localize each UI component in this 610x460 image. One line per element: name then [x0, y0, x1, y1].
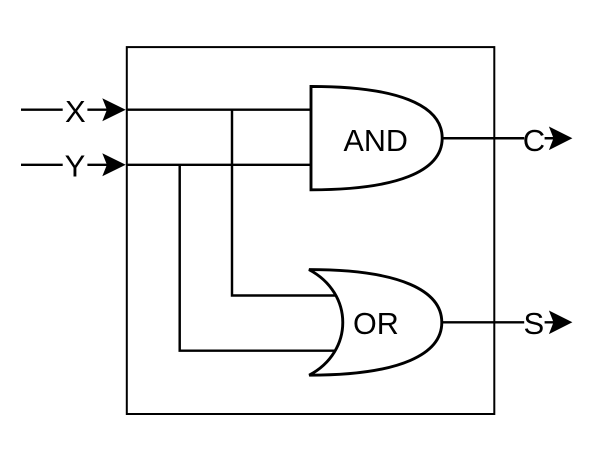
wire: X input lead (outside box) [21, 108, 122, 110]
wire: branch X to OR input 1 [232, 110, 338, 296]
wire: OR output to S [442, 321, 568, 323]
wire: AND output to C [442, 137, 568, 139]
arrowhead on S output [549, 311, 573, 335]
svg-text:C: C [523, 123, 545, 158]
arrowhead on C output [549, 127, 573, 151]
AND gate U1 [311, 86, 442, 189]
arrowhead on Y input at box edge [102, 153, 125, 176]
svg-text:X: X [65, 94, 86, 129]
wire: X to AND input 1 (inside box) [127, 108, 312, 110]
wire: branch Y to OR input 2 [180, 165, 338, 351]
enclosing box [127, 47, 495, 414]
arrowhead on X input at box edge [102, 98, 125, 121]
svg-text:OR: OR [353, 307, 399, 341]
wire: Y input lead (outside box) [21, 164, 122, 166]
label background Y [63, 149, 88, 180]
svg-text:S: S [523, 306, 544, 341]
svg-text:Y: Y [65, 148, 86, 183]
wire: Y to AND input 2 (inside box) [127, 164, 312, 166]
label background S [524, 309, 544, 339]
label background X [63, 94, 88, 125]
label background C [524, 124, 544, 154]
OR gate U2 [309, 270, 442, 376]
svg-text:AND: AND [343, 124, 407, 158]
